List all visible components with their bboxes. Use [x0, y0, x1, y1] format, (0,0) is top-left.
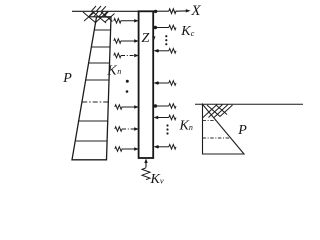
- left spring row 3 (y=55.5, dash-dot line): [114, 53, 136, 58]
- trapezoid rung y=63: [89, 62, 110, 64]
- svg-text:Z: Z: [142, 31, 150, 46]
- ground line right: [195, 103, 303, 105]
- base reaction arrow (up, under pile): [145, 160, 147, 168]
- svg-text:K: K: [106, 64, 117, 79]
- right spring row 4 (y=83): [158, 81, 177, 86]
- left pressure trapezoid P: [72, 17, 111, 160]
- trapezoid rung y=102 (dashed): [82, 101, 108, 103]
- ground hatch left (band diagonals): [89, 6, 109, 17]
- X axis arrowhead: [186, 9, 191, 12]
- ground hatch right: [203, 105, 233, 118]
- triangle rung y=120.6 (dotted): [203, 120, 217, 122]
- right spring row 2 (y=27.5, K_c): [154, 25, 176, 30]
- svg-text:п: п: [117, 67, 121, 76]
- left spring row 4 (y=107): [115, 105, 135, 110]
- svg-text:P: P: [62, 71, 72, 86]
- svg-text:c: c: [191, 29, 195, 38]
- trapezoid rung y=141: [76, 140, 107, 142]
- pile (central bar): [139, 11, 154, 158]
- ground hatch left (cross diagonals below): [83, 12, 115, 23]
- svg-text:K: K: [150, 172, 161, 187]
- left spring row 6 (y=149): [115, 147, 135, 152]
- trapezoid rung y=47: [92, 46, 111, 48]
- trapezoid rung y=80: [86, 79, 109, 81]
- svg-text:X: X: [190, 3, 201, 19]
- right spring row 6 (y=117.5): [158, 115, 177, 120]
- right ellipsis dots (between rows 6-7): [166, 124, 168, 134]
- left ellipsis dots: [126, 80, 129, 93]
- trapezoid rung y=121: [79, 120, 108, 122]
- svg-text:K: K: [179, 119, 190, 134]
- ground hatch band line left: [88, 16, 112, 18]
- ground line left: [72, 10, 139, 12]
- svg-text:v: v: [160, 176, 164, 186]
- triangle rung y=138 (dotted): [203, 137, 231, 139]
- right spring row 7 (y=146.8): [158, 145, 177, 150]
- trapezoid rung y=30: [94, 29, 110, 31]
- right ellipsis dots (below K_c): [165, 35, 167, 45]
- right pressure triangle P: [203, 104, 245, 154]
- left spring row 5 (y=129, dashed line): [115, 127, 136, 132]
- base spring (vertical): [142, 168, 150, 180]
- svg-text:п: п: [189, 123, 193, 132]
- X axis with spring: [154, 9, 187, 14]
- right spring row 3 (y=50.8): [158, 49, 177, 54]
- Z axis arrowhead (down): [152, 36, 155, 40]
- svg-text:K: K: [180, 24, 191, 39]
- left spring row 1 (y=20.8): [114, 19, 135, 24]
- left spring row 2 (y=41): [114, 39, 135, 44]
- X axis origin dot: [154, 10, 157, 13]
- svg-text:P: P: [237, 123, 247, 138]
- right spring row 5 (y=106): [156, 104, 176, 109]
